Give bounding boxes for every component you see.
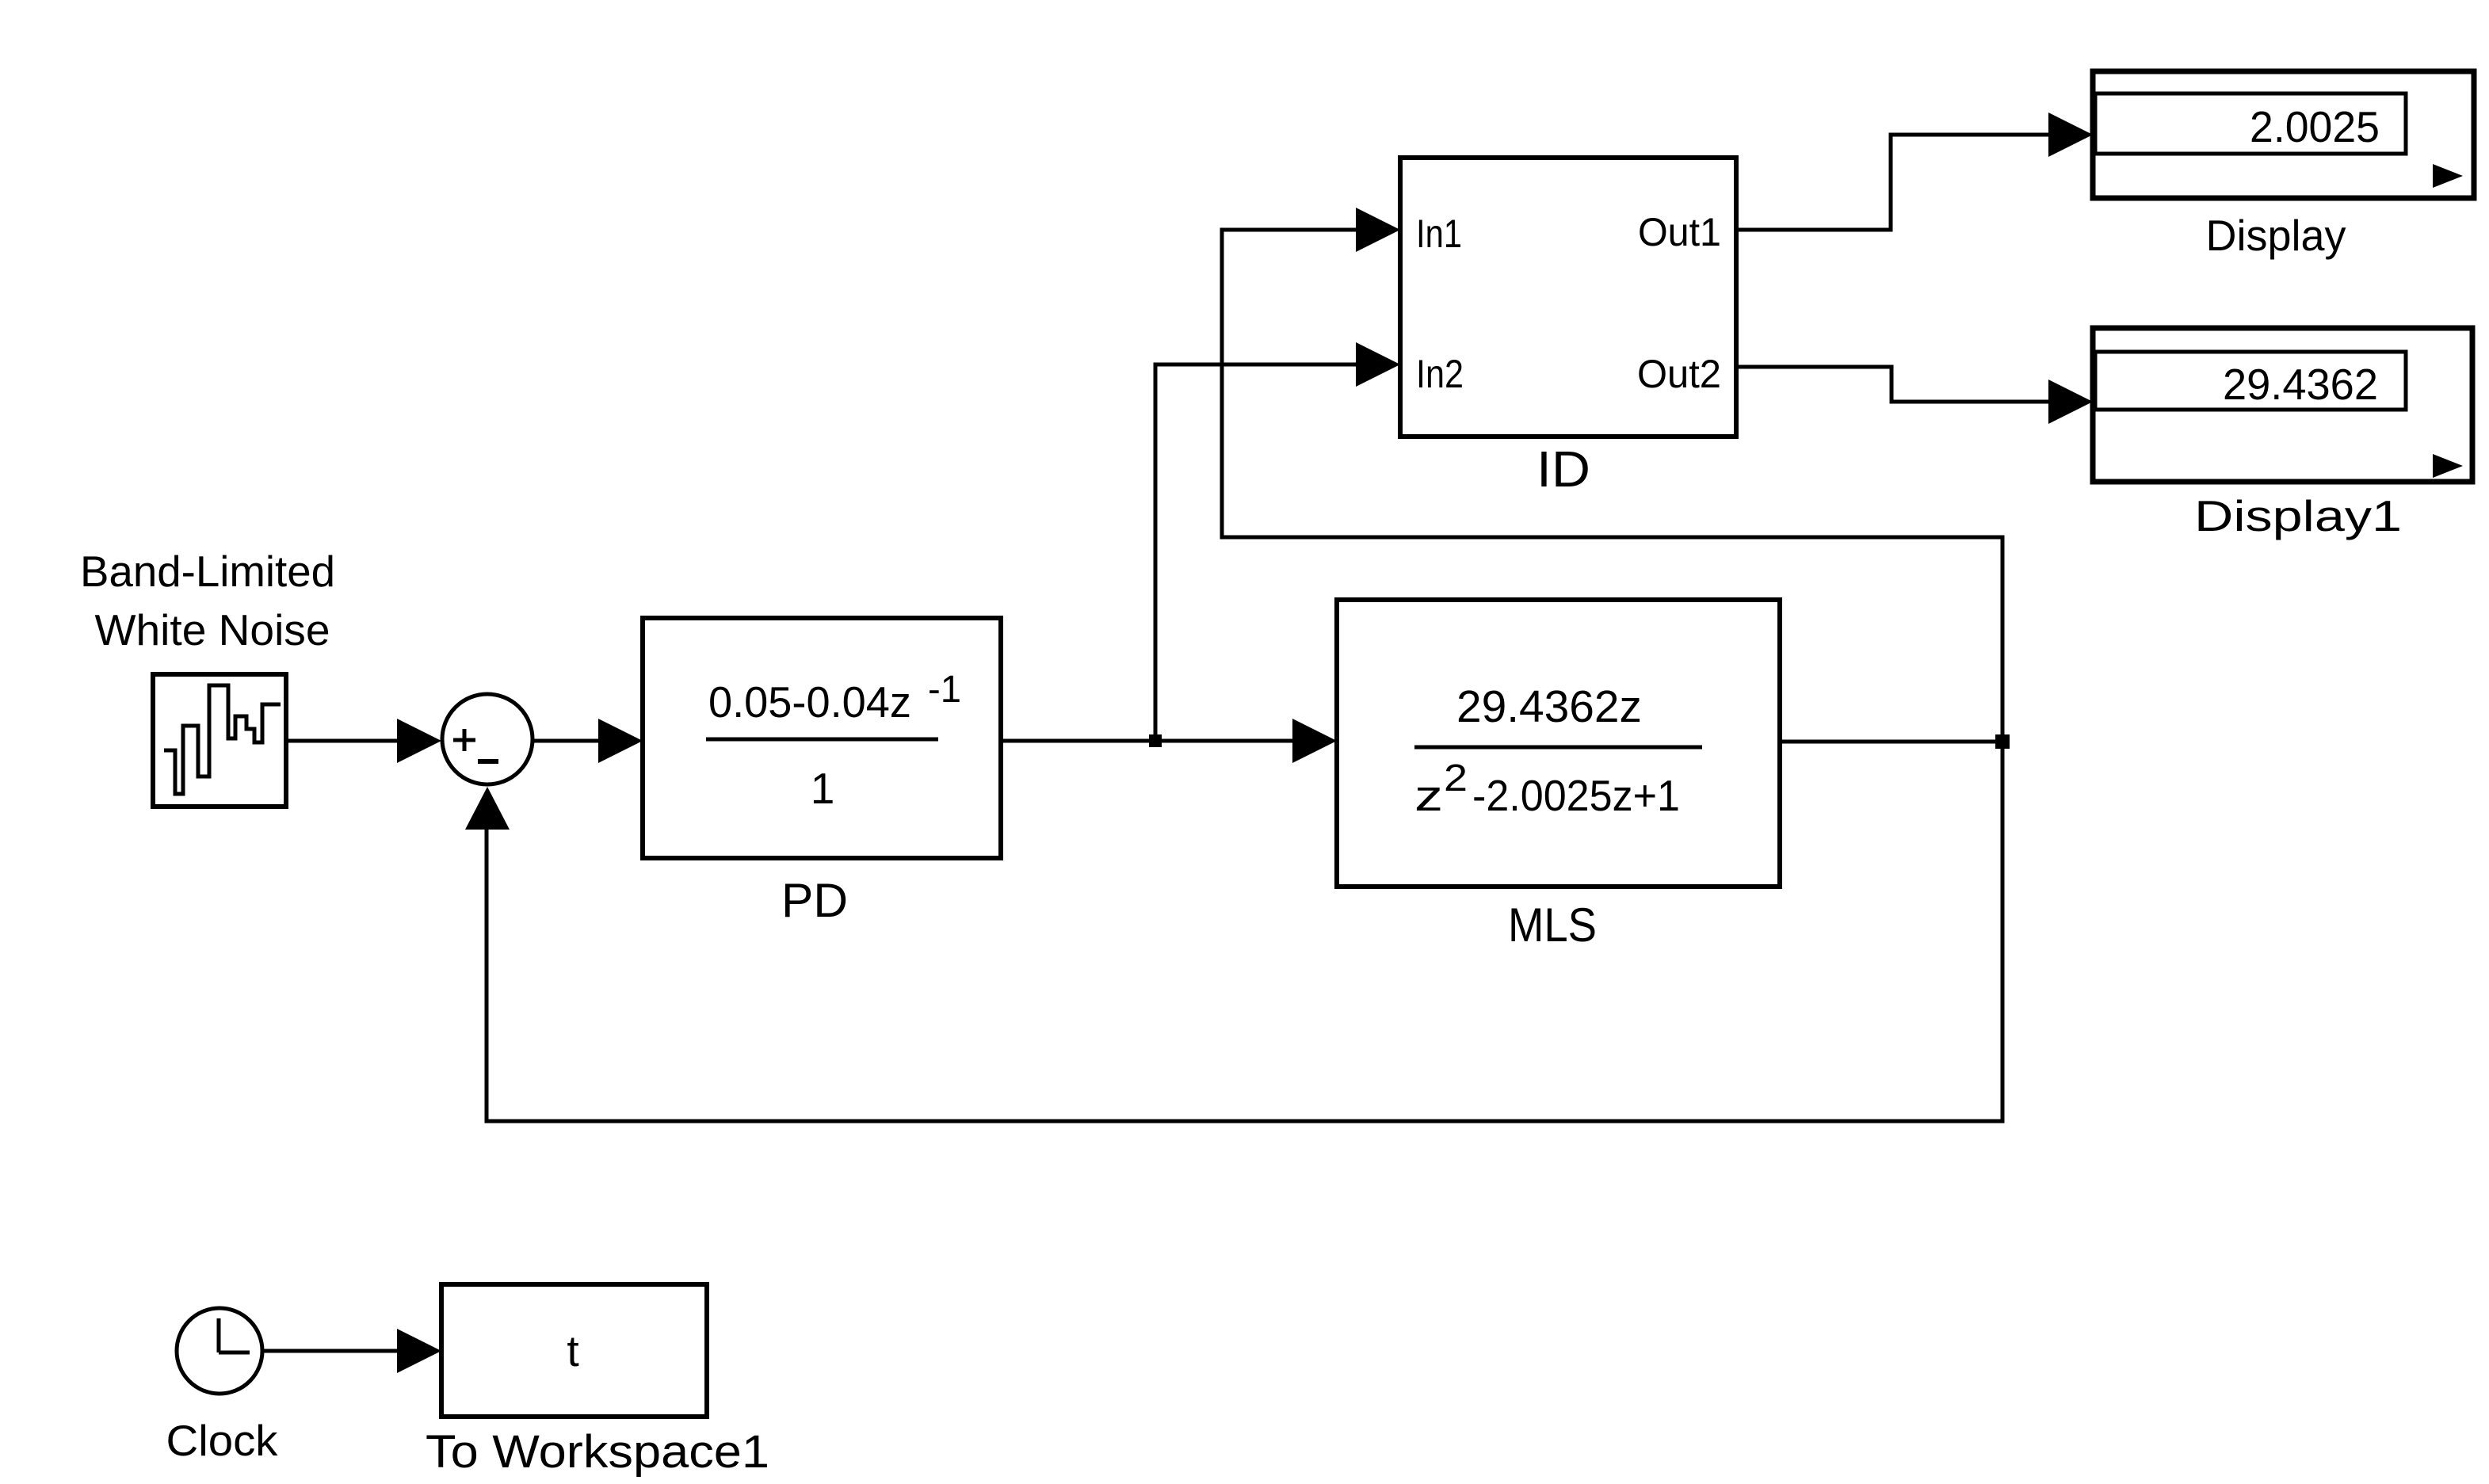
svg-text:Out2: Out2	[1637, 352, 1721, 396]
block Clock	[177, 1308, 262, 1394]
svg-text:2.0025: 2.0025	[2250, 102, 2380, 151]
svg-text:Clock: Clock	[166, 1416, 279, 1465]
svg-text:-2.0025z+1: -2.0025z+1	[1472, 771, 1680, 820]
svg-text:Display1: Display1	[2194, 491, 2402, 540]
svg-text:Out1: Out1	[1638, 210, 1721, 254]
wire junction up to In1	[1222, 230, 2002, 742]
block PD transfer function	[643, 618, 1001, 858]
svg-text:29.4362: 29.4362	[2223, 360, 2378, 409]
wire Out2 to Display1	[1736, 367, 2051, 402]
svg-text:z: z	[1414, 771, 1443, 820]
wire sum to PD	[533, 719, 643, 763]
block ID subsystem	[1400, 158, 1736, 437]
svg-text:ID: ID	[1537, 441, 1590, 498]
junction node MLS output	[1995, 734, 2010, 749]
arrowhead into Display	[2048, 113, 2093, 157]
svg-text:-1: -1	[928, 669, 961, 711]
wire noise to sum	[286, 719, 441, 763]
svg-text:29.4362z: 29.4362z	[1456, 681, 1642, 732]
arrowhead into In2	[1356, 342, 1400, 387]
svg-text:t: t	[567, 1326, 578, 1375]
svg-text:0.05-0.04z: 0.05-0.04z	[708, 677, 911, 727]
svg-text:White Noise: White Noise	[95, 605, 330, 654]
junction node PD output	[1149, 734, 1162, 747]
arrowhead into sum bottom	[465, 787, 510, 830]
svg-text:Display: Display	[2206, 211, 2346, 260]
svg-text:Band-Limited: Band-Limited	[80, 547, 335, 596]
block Display1	[2093, 328, 2472, 482]
wire PD to MLS	[1001, 719, 1337, 763]
svg-text:PD: PD	[781, 874, 848, 927]
block To Workspace1	[441, 1284, 707, 1417]
block Display	[2093, 71, 2474, 198]
svg-text:MLS: MLS	[1508, 898, 1597, 952]
sum junction	[442, 694, 533, 784]
wire feedback to sum	[487, 742, 2002, 1121]
svg-text:2: 2	[1444, 757, 1468, 799]
svg-text:1: 1	[811, 764, 835, 813]
wire MLS to junction	[1780, 740, 2002, 744]
wire Out1 to Display	[1736, 135, 2051, 230]
wire Clock to To Workspace1	[262, 1329, 441, 1373]
wire junction to In2	[1155, 364, 1357, 741]
block Band-Limited White Noise	[153, 674, 286, 807]
svg-text:In2: In2	[1416, 352, 1464, 396]
arrowhead into Display1	[2048, 380, 2093, 424]
block MLS transfer function	[1337, 600, 1780, 887]
svg-text:In1: In1	[1416, 212, 1462, 256]
svg-text:To Workspace1: To Workspace1	[426, 1426, 769, 1478]
label Band-Limited White Noise	[80, 547, 335, 654]
arrowhead into In1	[1356, 208, 1400, 252]
